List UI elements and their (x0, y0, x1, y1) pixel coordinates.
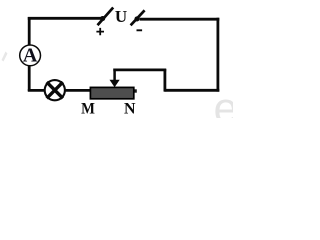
svg-text:U: U (115, 7, 127, 26)
svg-text:M: M (81, 101, 95, 118)
svg-text:N: N (124, 101, 136, 118)
svg-text:A: A (23, 45, 38, 67)
